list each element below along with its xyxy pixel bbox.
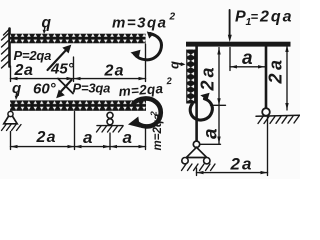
svg-text:m=2qa: m=2qa — [118, 81, 164, 99]
svg-text:45°: 45° — [50, 61, 75, 78]
horizontal dimension a (top, inner) — [230, 48, 265, 71]
pin support (beam 2 left) — [4, 113, 17, 124]
right column — [265, 44, 268, 109]
svg-text:P: P — [235, 9, 246, 26]
pin support (frame right column, on wall) — [262, 108, 270, 116]
svg-text:P=3qa: P=3qa — [73, 81, 111, 96]
fixed wall hatching — [2, 30, 10, 69]
svg-text:m=2qa: m=2qa — [152, 113, 164, 150]
svg-text:q: q — [42, 15, 52, 32]
dimension line beam 1 — [11, 44, 146, 82]
svg-text:2a: 2a — [36, 129, 57, 146]
svg-text:P=2qa: P=2qa — [14, 48, 52, 63]
force P1=2qa — [229, 10, 231, 37]
distributed load q on left column (hatched band) — [186, 50, 196, 104]
svg-text:2a: 2a — [266, 56, 286, 84]
roller support (frame left column bottom) — [193, 141, 199, 147]
vertical dimension 2a / a (left of frame) — [198, 48, 226, 145]
arrow from q to beam 2 — [15, 93, 17, 97]
svg-text:a: a — [201, 128, 222, 139]
force P=3qa at 60 deg (X strokes) — [58, 79, 73, 94]
dimension line beam 2 — [11, 112, 146, 150]
svg-text:60°: 60° — [33, 81, 57, 98]
left column — [195, 44, 198, 142]
svg-text:2: 2 — [149, 111, 159, 117]
svg-text:2: 2 — [165, 76, 173, 87]
moment arrow at free end of beam 1 — [134, 34, 161, 60]
svg-text:a: a — [242, 48, 253, 69]
svg-text:a: a — [83, 128, 92, 147]
roller support (beam 2 middle) — [107, 112, 113, 118]
moment m=2qa^2 on left column — [190, 99, 212, 120]
svg-text:m=3qa: m=3qa — [112, 15, 167, 32]
arrow from q to band — [174, 62, 181, 65]
bottom dimension 2a (frame) — [197, 117, 268, 176]
label m=2qa^2 (beam 2) — [118, 76, 174, 99]
svg-text:2a: 2a — [104, 63, 125, 80]
svg-text:2qa: 2qa — [259, 9, 294, 26]
svg-text:2: 2 — [169, 12, 176, 23]
beam 1 with distributed load q (hatched band) — [10, 34, 146, 44]
svg-text:a: a — [123, 128, 132, 147]
top bar of frame — [186, 42, 291, 47]
svg-text:q: q — [167, 61, 182, 69]
force P=2qa at 45 deg — [48, 49, 68, 71]
vertical dimension 2a (right of frame) — [286, 45, 288, 110]
arrow from q to beam — [43, 27, 46, 32]
svg-text:2a: 2a — [14, 62, 34, 79]
svg-text:=: = — [251, 9, 259, 24]
svg-text:2a: 2a — [198, 64, 218, 91]
svg-text:2a: 2a — [230, 155, 254, 174]
beam 2 with distributed load q (hatched band) — [10, 100, 146, 110]
fixed wall line — [8, 29, 11, 67]
moment arrow at right end of beam 2 — [134, 98, 161, 126]
